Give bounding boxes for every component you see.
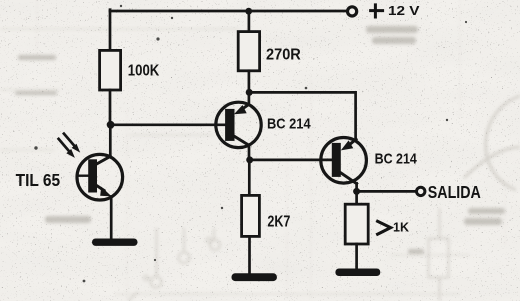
stray ink specks (decorative): [34, 5, 467, 283]
ground (R3): [232, 273, 277, 281]
resistor R1 100K: [100, 50, 121, 90]
wire: node E down to R4: [355, 191, 358, 204]
wire: left vertical from rail to R1: [109, 10, 112, 51]
wire: R3 bottom to ground: [248, 236, 251, 273]
label 2K7: [267, 214, 290, 231]
label > 1K: [376, 221, 409, 235]
node C junction: [246, 89, 253, 96]
wire: Q1 collector to node D: [248, 145, 251, 160]
wire: node E to SALIDA terminal: [357, 190, 417, 193]
label 100K: [128, 62, 160, 79]
label 270R: [266, 47, 301, 64]
Q2 base bar: [332, 143, 341, 177]
terminal +12V: [348, 7, 357, 16]
svg-text:BC 214: BC 214: [375, 151, 418, 167]
wire: node D to Q2 base: [250, 159, 332, 162]
node D junction: [246, 156, 253, 163]
Q1 base bar: [225, 109, 234, 141]
label BC 214 (Q2): [375, 151, 418, 167]
svg-text:270R: 270R: [266, 47, 301, 64]
TIL65 collector diagonal: [97, 156, 111, 164]
wire: TIL65 emitter to ground: [110, 197, 113, 240]
Q1 collector diagonal: [235, 136, 249, 145]
Q1 emitter diagonal with inward arrow: [243, 104, 249, 108]
phototransistor TIL65 body: [77, 154, 123, 200]
wire: +12V top rail: [110, 10, 347, 13]
label SALIDA: [428, 182, 481, 202]
wire: R4 bottom to ground: [355, 244, 358, 269]
light arrows into phototransistor: [59, 134, 81, 158]
svg-text:SALIDA: SALIDA: [428, 182, 481, 202]
svg-text:1K: 1K: [393, 221, 409, 235]
node B junction on rail: [245, 8, 252, 15]
wire: node A to Q1 base: [110, 123, 225, 126]
svg-text:TIL 65: TIL 65: [16, 170, 61, 190]
resistor R2 270R: [238, 32, 259, 71]
ghost print bleed-through marks (decorative): [15, 26, 505, 254]
wire: node C down to Q1 emitter: [248, 92, 251, 104]
TIL65 base bar: [88, 159, 97, 192]
resistor R3 2K7: [242, 195, 260, 236]
wire: node C to Q2 collector (top route): [249, 92, 355, 139]
svg-text:2K7: 2K7: [267, 214, 290, 231]
TIL65 internal base line: [77, 174, 88, 176]
svg-text:BC 214: BC 214: [267, 117, 311, 133]
wire: R2 bottom to node C: [248, 71, 251, 93]
label TIL 65: [16, 170, 61, 190]
wire: R1 bottom to node A: [109, 90, 112, 125]
ground (TIL65 emitter): [92, 239, 138, 246]
svg-text:100K: 100K: [128, 62, 160, 79]
wire: rail to R2: [248, 11, 251, 32]
svg-text:12 V: 12 V: [388, 3, 420, 18]
Q2 collector diagonal: [341, 173, 357, 184]
transistor Q2 BC214 body: [321, 138, 367, 184]
label BC 214 (Q1): [267, 117, 311, 133]
wire: node D down to R3: [248, 160, 251, 196]
TIL65 emitter diagonal with arrow: [95, 185, 104, 191]
label +12V: [371, 3, 420, 18]
ground (R4): [335, 269, 380, 277]
resistor R4 1K: [345, 204, 368, 244]
wire: Q2 collector to node E: [355, 183, 358, 191]
node A junction: [107, 121, 115, 129]
wire: node A down to TIL65 collector: [109, 125, 112, 157]
transistor Q1 BC214 body: [216, 102, 261, 147]
node E junction: [353, 188, 360, 195]
Q2 emitter diagonal with inward arrow: [350, 139, 357, 144]
terminal SALIDA: [417, 187, 425, 195]
